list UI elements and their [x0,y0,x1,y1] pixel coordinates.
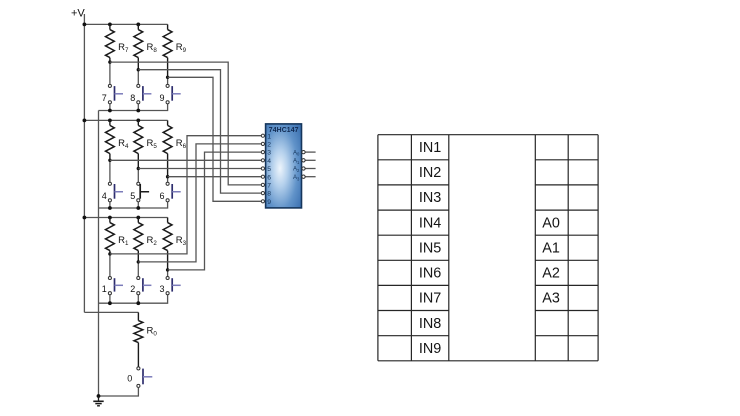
svg-text:1: 1 [102,284,107,294]
svg-text:IN7: IN7 [419,291,441,307]
svg-text:A1: A1 [293,159,300,165]
node tap junction key 1 [108,252,111,255]
IC pin 3 [261,151,264,154]
wire: key 1 tap to pin 1 [110,136,261,254]
svg-text:IN8: IN8 [419,316,441,332]
svg-text:IN6: IN6 [419,266,441,282]
wire: lead from R6 tap to switch 6 [167,177,169,183]
switch key 5 (push-button) [137,182,140,185]
resistor R1 [109,218,111,223]
IC pin 1 [261,134,264,137]
node junction dots row 2 rail [83,119,87,123]
svg-text:A2: A2 [293,167,300,173]
wire: lead from R2 tap to switch 2 [137,262,139,277]
wire: lead from R1 tap to switch 1 [109,254,111,277]
svg-text:A1: A1 [542,240,560,256]
wire: key 4 tap to pin 4 [110,159,261,161]
svg-text:8: 8 [130,93,135,103]
node tap junction key 5 [137,167,140,170]
svg-text:7: 7 [102,93,107,103]
svg-text:5: 5 [130,191,135,201]
wire: lead from R9 tap to switch 9 [167,77,169,84]
switch key 7 (push-button) [108,84,111,87]
wire: lead from R5 tap to switch 5 [137,169,139,183]
wire: row 1 switch ground rail [99,104,168,111]
wire: key 7 tap to pin 7 [110,62,261,185]
resistor R7 [109,24,111,29]
switch key 3 (push-button) [166,276,169,279]
truth table grid [377,135,379,361]
wire: key 8 tap to pin 8 [138,70,261,193]
wire: ground return vertical V2 [98,111,100,397]
node junction dots row 3 ground rail [108,301,112,305]
IC output A1 stub [305,159,315,161]
svg-text:R6: R6 [176,138,187,150]
wire: lead from R3 tap to switch 3 [167,270,169,277]
wire: +V vertical rail V1 down left side [83,14,85,312]
svg-text:9: 9 [267,199,271,206]
svg-text:IN4: IN4 [419,215,441,231]
resistor R3 [167,218,169,223]
svg-text:R1: R1 [118,235,129,247]
svg-text:R4: R4 [118,138,129,150]
node junction dots row 1 ground rail [108,109,112,113]
svg-text:74HC147: 74HC147 [269,127,299,134]
svg-text:IN9: IN9 [419,341,441,357]
svg-text:R7: R7 [118,42,129,54]
wire: row 2 +V rail [84,119,167,121]
svg-text:R2: R2 [147,235,158,247]
wire: switch 0 to ground rail [99,387,139,396]
switch key 2 (push-button) [137,276,140,279]
svg-text:R8: R8 [147,42,158,54]
svg-text:6: 6 [159,191,164,201]
wire: lead from R8 tap to switch 8 [137,70,139,85]
svg-text:8: 8 [267,191,271,198]
svg-text:A0: A0 [293,150,300,156]
svg-text:A3: A3 [542,291,560,307]
IC pin 7 [261,183,264,186]
ground symbol [98,396,100,401]
node ground junction [97,394,101,398]
wire: row 2 switch ground rail [99,202,168,208]
switch key 0 (push-button) [137,367,140,370]
svg-text:R9: R9 [176,42,187,54]
IC output A0 stub [305,151,315,153]
svg-text:2: 2 [130,284,135,294]
wire: key 6 tap to pin 6 [168,176,262,178]
svg-text:IN2: IN2 [419,165,441,181]
svg-text:A0: A0 [542,215,560,231]
node junction dots row 3 rail [83,216,87,220]
svg-text:+V: +V [71,8,85,20]
wire: V1 elbow to R0 top [84,311,138,313]
wire: row 3 switch ground rail [99,295,168,304]
IC pin 9 [261,200,264,203]
svg-text:A3: A3 [293,175,300,181]
IC pin 6 [261,175,264,178]
svg-text:1: 1 [267,133,271,140]
IC pin 8 [261,192,264,195]
node tap junction key 6 [166,175,169,178]
resistor R6 [167,120,169,125]
wire: key 2 tap to pin 2 [138,144,261,262]
node tap junction key 8 [137,68,140,71]
svg-text:9: 9 [159,93,164,103]
svg-text:3: 3 [159,284,164,294]
svg-text:5: 5 [267,166,271,173]
resistor R0 [137,312,139,320]
wire: lead from R4 tap to switch 4 [109,160,111,182]
IC pin 4 [261,159,264,162]
resistor R9 [167,24,169,29]
svg-text:2: 2 [267,142,271,149]
wire: key 5 tap to pin 5 [138,168,261,170]
switch key 4 (push-button) [108,182,111,185]
resistor R4 [109,120,111,125]
svg-text:4: 4 [102,191,107,201]
wire: row 3 +V rail [84,217,167,219]
node tap junction key 2 [137,260,140,263]
svg-text:R3: R3 [176,235,187,247]
svg-text:3: 3 [267,150,271,157]
svg-text:0: 0 [127,374,132,384]
node junction dots row 1 rail [83,23,87,27]
node tap junction key 3 [166,268,169,271]
svg-text:7: 7 [267,183,271,190]
IC output A2 stub [305,168,315,170]
svg-text:IN1: IN1 [419,140,441,156]
wire: key 3 tap to pin 3 [168,152,262,270]
IC output A3 stub [305,176,315,178]
node tap junction key 7 [108,60,111,63]
svg-text:A2: A2 [542,266,560,282]
IC pin 5 [261,167,264,170]
node junction dots row 2 ground rail [108,206,112,210]
resistor R2 [137,218,139,223]
svg-text:R0: R0 [147,326,158,338]
switch key 6 (push-button) [166,182,169,185]
svg-text:4: 4 [267,158,271,165]
resistor R8 [137,24,139,29]
svg-text:IN5: IN5 [419,240,441,256]
resistor R5 [137,120,139,125]
node tap junction key 9 [166,76,169,79]
svg-text:IN3: IN3 [419,190,441,206]
switch key 8 (push-button) [137,84,140,87]
svg-text:6: 6 [267,174,271,181]
wire: lead from R7 tap to switch 7 [109,62,111,84]
wire: key 9 tap to pin 9 [168,77,262,201]
switch key 9 (push-button) [166,84,169,87]
IC pin 2 [261,142,264,145]
switch key 1 (push-button) [108,276,111,279]
wire: row 1 +V rail [84,23,167,25]
svg-text:R5: R5 [147,138,158,150]
node tap junction key 4 [108,159,111,162]
